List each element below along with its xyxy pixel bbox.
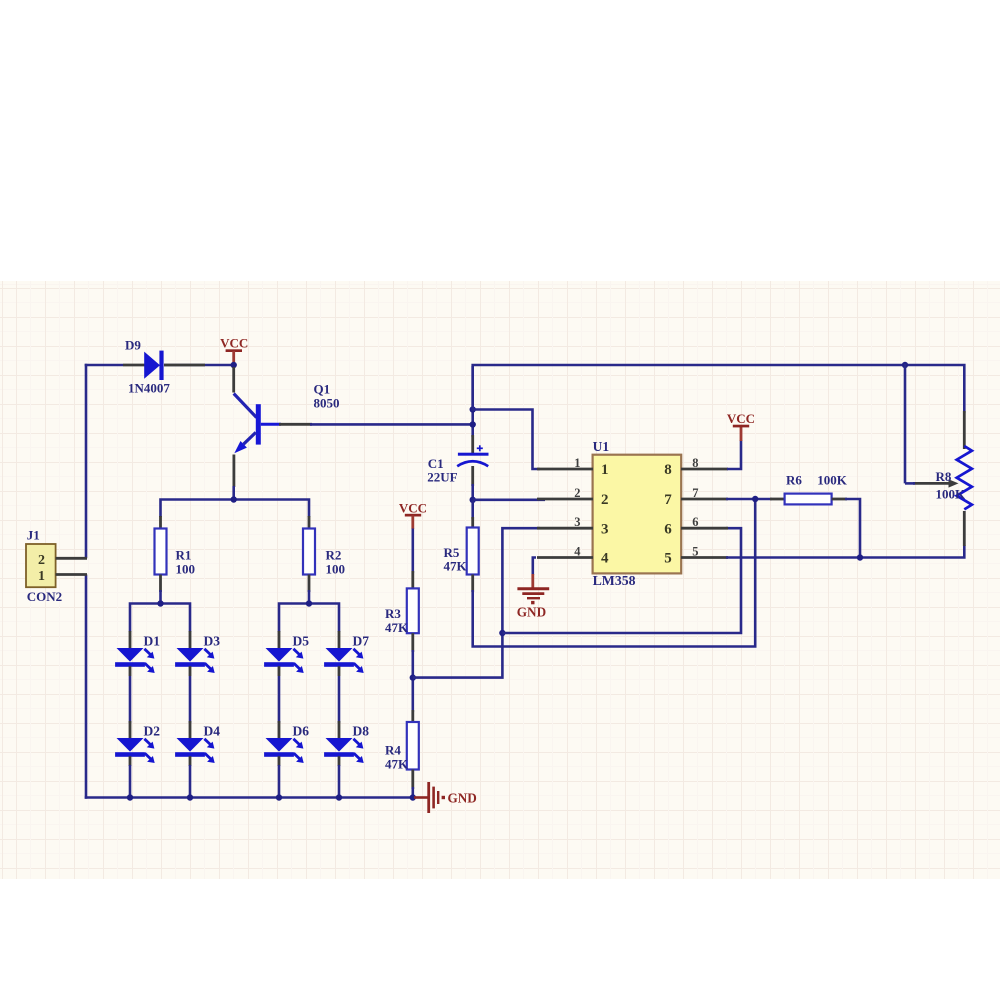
svg-text:R8: R8: [936, 469, 952, 484]
resistor R1 body: [155, 529, 167, 575]
svg-text:VCC: VCC: [220, 336, 248, 351]
LED D1 cathode bar: [115, 662, 145, 667]
svg-text:VCC: VCC: [399, 501, 427, 516]
pin: R1 top pin: [159, 516, 162, 529]
node: emitter tee junction: [231, 496, 237, 502]
svg-text:LM358: LM358: [593, 573, 636, 588]
LED D4 triangle: [177, 738, 204, 752]
wire: wiper to top bus corner: [905, 482, 915, 485]
transistor Q1 emitter lead with arrow: [244, 432, 256, 444]
LED D2 light arrows: [144, 739, 150, 745]
pin: R5 top pin: [471, 517, 474, 529]
pin: R2 bottom pin: [308, 575, 311, 593]
pin: U1 pin 8 (right): [681, 468, 728, 471]
wire: R2 bottom to LED tee: [308, 590, 311, 604]
pin: D6 anode pin: [278, 721, 281, 739]
svg-text:8: 8: [692, 456, 698, 470]
svg-text:R4: R4: [385, 743, 401, 758]
wire: junction down to R5: [471, 500, 474, 519]
resistor R4 body: [407, 722, 419, 770]
pin: Q1 base pin: [279, 423, 312, 426]
pin: C1 top pin: [471, 435, 474, 453]
LED D5 triangle: [266, 648, 293, 662]
pin: D7 cathode pin: [338, 666, 341, 676]
svg-text:D3: D3: [204, 634, 221, 649]
node: LED column junction on ground rail: [336, 794, 342, 800]
pin: U1 pin 3 (left): [537, 527, 593, 530]
ground GND symbol at bottom rail: [414, 796, 429, 799]
wire: bottom ground rail: [85, 796, 415, 799]
wire: R6 to pin 5 line: [845, 499, 860, 558]
wire: top-left horizontal D9 cathode to VCC node: [164, 364, 234, 367]
diode D9 cathode bar: [159, 351, 163, 380]
wire: C1 node vertical: [471, 366, 474, 437]
wire: R3/R4 midpoint to op-amp pin 3: [413, 528, 540, 677]
node: base wire junction: [470, 421, 476, 427]
pin: D3 anode pin: [189, 631, 192, 649]
pin: D6 cathode pin: [278, 756, 281, 766]
wire: R5 bottom to pin 7 node: [473, 501, 756, 647]
svg-text:1: 1: [574, 456, 580, 470]
LED D7 cathode bar: [324, 662, 354, 667]
pin: D1 cathode pin: [129, 666, 132, 676]
wire: emitter tee horizontal over R1 R2: [161, 500, 310, 518]
svg-text:D4: D4: [204, 724, 221, 739]
svg-text:D5: D5: [293, 634, 310, 649]
svg-text:4: 4: [574, 544, 581, 558]
LED D6 cathode bar: [264, 752, 294, 757]
node: C1/pin2/R5 junction: [470, 497, 476, 503]
LED D6 triangle: [266, 738, 293, 752]
transistor Q1 base lead stub: [261, 423, 281, 426]
svg-text:7: 7: [664, 492, 672, 508]
svg-text:47K: 47K: [385, 756, 409, 771]
LED D3 light arrows: [204, 649, 210, 655]
wire: top right bus: [473, 365, 965, 413]
wire: VCC to R3: [411, 529, 414, 574]
svg-text:R3: R3: [385, 606, 401, 621]
svg-text:100K: 100K: [936, 486, 967, 501]
pin: U1 pin 7 (right): [681, 498, 728, 501]
pin: R1 bottom pin: [159, 575, 162, 593]
svg-text:6: 6: [692, 515, 698, 529]
wire: R3 to R4: [411, 650, 414, 712]
pin: R3 top pin: [411, 571, 414, 589]
wire: R8 wiper branch vertical: [904, 364, 907, 484]
pin: D3 cathode pin: [189, 666, 192, 676]
svg-text:Q1: Q1: [314, 382, 331, 397]
node: VCC/D9/collector junction: [231, 362, 237, 368]
LED D3 cathode bar: [175, 662, 205, 667]
wire: emitter to R1/R2 tee: [232, 486, 235, 500]
svg-text:1N4007: 1N4007: [128, 381, 170, 396]
LED D5 light arrows: [293, 649, 299, 655]
svg-text:R1: R1: [176, 548, 192, 563]
svg-text:D7: D7: [353, 634, 370, 649]
wire: R4 bottom to ground rail: [411, 787, 414, 799]
node: pin7/R5/R6 junction: [752, 496, 758, 502]
svg-text:5: 5: [664, 551, 672, 567]
LED D7 light arrows: [353, 649, 359, 655]
svg-text:100: 100: [326, 562, 346, 577]
pin: J1 pin 1: [56, 573, 87, 576]
node: LED column junction on ground rail: [127, 794, 133, 800]
capacitor C1 negative plate (arc): [457, 461, 488, 466]
node: top wire / pin1 junction: [470, 406, 476, 412]
wire: LED tee under R1: [130, 604, 190, 633]
capacitor C1 positive plate: [458, 453, 489, 456]
LED D5 cathode bar: [264, 662, 294, 667]
node: LED column junction on ground rail: [276, 794, 282, 800]
svg-text:1: 1: [601, 462, 609, 478]
pin: D2 anode pin: [129, 721, 132, 739]
svg-text:3: 3: [601, 521, 609, 537]
wire: pin 7 to R6: [726, 498, 772, 501]
wire: D3 cathode to D4 anode: [189, 676, 192, 723]
svg-text:J1: J1: [27, 528, 40, 543]
pin: D9 cathode pin: [164, 364, 205, 367]
svg-text:GND: GND: [448, 791, 477, 806]
wire: D8 cathode to ground rail: [338, 765, 341, 799]
pin: R8 wiper pin with arrow: [913, 482, 950, 485]
wire: D1 cathode to D2 anode: [129, 676, 132, 723]
pin: Q1 collector pin: [232, 367, 235, 393]
node: R4/ground rail junction: [410, 794, 416, 800]
LED D8 cathode bar: [324, 752, 354, 757]
pin: D2 cathode pin: [129, 756, 132, 766]
svg-text:D2: D2: [144, 724, 161, 739]
wire: D7 cathode to D8 anode: [338, 676, 341, 723]
pin: J1 pin 2: [56, 557, 87, 560]
pin: D8 cathode pin: [338, 756, 341, 766]
LED D4 light arrows: [204, 739, 210, 745]
wire: LED tee under R2: [279, 604, 339, 633]
node: R2 tee junction: [306, 600, 312, 606]
LED D2 triangle: [117, 738, 144, 752]
resistor R5 body: [467, 528, 479, 575]
pin: D8 anode pin: [338, 721, 341, 739]
pin: D9 anode pin: [123, 364, 145, 367]
pin: D4 anode pin: [189, 721, 192, 739]
svg-text:4: 4: [601, 551, 609, 567]
svg-text:2: 2: [574, 486, 580, 500]
node: R6/pin5 junction: [857, 554, 863, 560]
pin: D1 anode pin: [129, 631, 132, 649]
pin: R4 bottom pin: [411, 770, 414, 790]
svg-text:8: 8: [664, 462, 672, 478]
pin: R8 bottom pin: [963, 511, 966, 546]
wire: left rail lower segment (J1 pin1 to ground rail): [85, 575, 88, 799]
LED D7 triangle: [326, 648, 353, 662]
LED D1 light arrows: [144, 649, 150, 655]
svg-text:D8: D8: [353, 724, 370, 739]
node: R8 wiper branch junction: [902, 362, 908, 368]
transistor Q1 base bar: [256, 404, 261, 444]
pin: D5 cathode pin: [278, 666, 281, 676]
wire: junction to op-amp pin 1: [473, 410, 540, 470]
wire: pin 5 to R8 bottom: [726, 545, 964, 558]
svg-text:U1: U1: [593, 439, 610, 454]
pin: U1 pin 1 (left): [537, 468, 593, 471]
node: LED column junction on ground rail: [187, 794, 193, 800]
wire: D2 cathode to ground rail: [129, 765, 132, 799]
ground GND symbol at pin 4: [531, 574, 534, 589]
wire: R1 bottom to LED tee: [159, 590, 162, 604]
wire: D6 cathode to ground rail: [278, 765, 281, 799]
pin: U1 pin 4 wire to ground: [533, 558, 536, 576]
node: R3/R4 midpoint junction: [410, 674, 416, 680]
svg-text:100: 100: [176, 562, 196, 577]
svg-text:47K: 47K: [444, 559, 468, 574]
svg-text:R6: R6: [786, 473, 802, 488]
pin: R5 bottom pin: [471, 575, 474, 593]
LED D8 triangle: [326, 738, 353, 752]
svg-text:100K: 100K: [817, 473, 848, 488]
pin: U1 pin 6 (right): [681, 527, 728, 530]
connector J1 body (CON2): [26, 544, 56, 587]
pin: R4 top pin: [411, 710, 414, 723]
svg-text:D1: D1: [144, 634, 161, 649]
pin: R6 left pin: [770, 498, 785, 501]
capacitor C1 plus sign: [477, 447, 483, 449]
svg-text:1: 1: [38, 569, 45, 584]
svg-text:3: 3: [574, 515, 580, 529]
svg-text:D6: D6: [293, 724, 310, 739]
pin: Q1 emitter pin: [232, 455, 235, 488]
LED D4 cathode bar: [175, 752, 205, 757]
svg-text:8050: 8050: [314, 396, 340, 411]
svg-text:6: 6: [664, 521, 672, 537]
pin: R3 bottom pin: [411, 633, 414, 652]
resistor R2 body: [303, 529, 315, 575]
svg-text:D9: D9: [125, 338, 141, 353]
pin: C1 bottom pin: [471, 466, 474, 486]
LED D6 light arrows: [293, 739, 299, 745]
wire: pin3 branch to pin 6: [502, 528, 741, 633]
LED D8 light arrows: [353, 739, 359, 745]
wire: D4 cathode to ground rail: [189, 765, 192, 799]
wire: pin 8 to VCC: [727, 440, 741, 469]
resistor R6 body: [785, 494, 832, 505]
svg-text:5: 5: [692, 544, 698, 558]
svg-text:2: 2: [601, 492, 609, 508]
pin: D7 anode pin: [338, 631, 341, 649]
svg-text:R2: R2: [326, 548, 342, 563]
diode D9 (1N4007) triangle: [144, 352, 160, 379]
wire: Q1 base to C1 node: [310, 423, 473, 426]
pin: U1 pin 2 (left): [537, 498, 593, 501]
svg-text:C1: C1: [428, 456, 444, 471]
pin: U1 pin 5 (right): [681, 556, 728, 559]
node: pin3 branch junction: [499, 630, 505, 636]
LED D1 triangle: [117, 648, 144, 662]
wire: C1 bottom to pin2 node: [471, 484, 474, 500]
node: R1 tee junction: [157, 600, 163, 606]
pin: R6 right pin: [832, 498, 847, 501]
wire: left rail upper segment (J1 pin2 to D9 anode): [85, 364, 88, 559]
pin: U1 pin 4 (left): [537, 556, 593, 559]
transistor Q1 8050 collector lead: [234, 394, 257, 418]
pin: R8 top pin: [963, 411, 966, 449]
svg-text:CON2: CON2: [27, 589, 62, 604]
pin: D4 cathode pin: [189, 756, 192, 766]
wire: junction to op-amp pin 2: [473, 498, 545, 501]
resistor R3 body: [407, 588, 419, 633]
LED D3 triangle: [177, 648, 204, 662]
potentiometer R8 zigzag body: [957, 446, 972, 509]
svg-text:GND: GND: [517, 605, 546, 620]
LED D2 cathode bar: [115, 752, 145, 757]
pin: D5 anode pin: [278, 631, 281, 649]
svg-text:47K: 47K: [385, 620, 409, 635]
svg-text:2: 2: [38, 553, 45, 568]
svg-text:22UF: 22UF: [427, 470, 457, 485]
svg-text:7: 7: [692, 486, 698, 500]
pin: R2 top pin: [308, 516, 311, 529]
op-amp U1 LM358 body: [593, 455, 682, 574]
wire: D5 cathode to D6 anode: [278, 676, 281, 723]
svg-text:VCC: VCC: [727, 411, 755, 426]
